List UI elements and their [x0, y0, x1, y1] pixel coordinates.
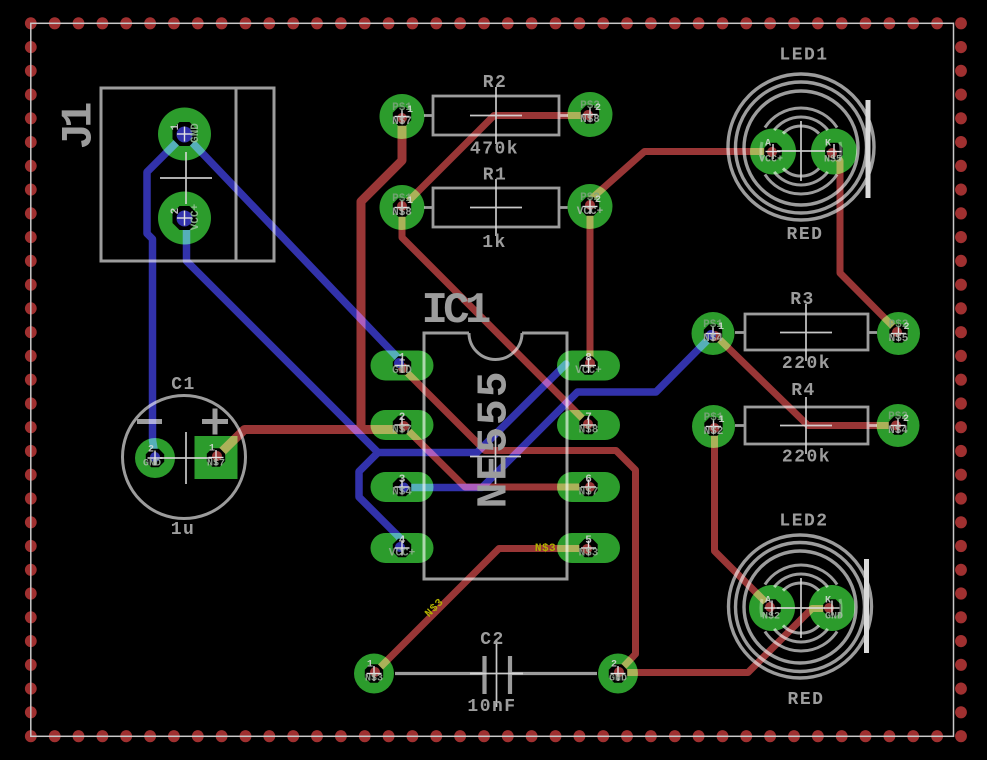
LED1 flat edge chord	[866, 100, 871, 198]
resistor R3 body outline	[735, 314, 877, 350]
LED1 arc streaks over pads	[761, 142, 841, 160]
svg-text:C1: C1	[171, 375, 196, 395]
LED1 package circles	[728, 74, 874, 220]
label 220k R3	[782, 354, 831, 374]
svg-text:A: A	[765, 596, 771, 607]
op IC1 DIP-8 package outline with pin-1 notch	[424, 333, 567, 579]
svg-text:R1: R1	[483, 166, 508, 186]
pad IC1 pad 4 VCC+	[371, 533, 434, 563]
pad C2 pad 1 net N$3	[354, 654, 394, 694]
svg-text:N$2: N$2	[704, 426, 724, 438]
pad IC1 pad 3 net N$4	[371, 472, 434, 502]
board dotted border: left column of drill dots	[25, 41, 37, 718]
pad R3 pad P$2 net N$5	[877, 312, 920, 355]
label 220k R4	[782, 448, 831, 468]
copper trace ends visible in drill holes	[150, 110, 902, 677]
svg-text:N$3: N$3	[535, 543, 556, 555]
svg-text:N$7: N$7	[579, 487, 599, 499]
svg-text:N$3: N$3	[365, 673, 383, 685]
label 10nF	[467, 697, 516, 717]
svg-text:1: 1	[407, 196, 413, 207]
capacitor C1 polarity plus sign	[202, 409, 228, 435]
wire top copper net N$8: R1 P$1 to IC1 pin 7	[402, 208, 589, 425]
label LED1	[779, 46, 828, 66]
svg-text:R2: R2	[483, 73, 508, 93]
label R3	[790, 290, 815, 310]
wire top copper net VCC+: R1 P$2 to IC1 pin 8	[587, 207, 594, 361]
svg-text:R4: R4	[791, 381, 816, 401]
label 1k	[482, 233, 507, 253]
label RED LED1	[787, 225, 824, 245]
board dotted border: right column of drill dots	[955, 41, 967, 718]
svg-text:K: K	[825, 596, 831, 607]
svg-text:GND: GND	[190, 123, 202, 143]
wire bottom copper net VCC+: J1 pin 2 down-diagonal	[185, 219, 379, 453]
wire top copper net GND: IC1 pin 1 to C2 pad 2	[401, 367, 636, 673]
label C1	[171, 375, 196, 395]
wire top copper net N$2: R4 P$1 to LED2 A	[715, 428, 772, 608]
pad IC1 pad 7 net N$8	[557, 410, 620, 440]
label NE555	[470, 369, 519, 508]
pad R4 pad P$1 net N$2	[692, 405, 735, 448]
svg-text:1: 1	[718, 322, 724, 333]
connector J1 outline	[101, 88, 274, 261]
resistor R1 body outline	[424, 188, 568, 227]
wire top copper net GND: C2 pad 2 to LED2 K	[618, 609, 830, 673]
pad J1 pin 1 GND	[158, 108, 211, 161]
svg-text:GND: GND	[825, 612, 843, 623]
capacitor C1 polarity minus sign	[137, 419, 162, 424]
svg-text:6: 6	[585, 474, 592, 486]
svg-text:GND: GND	[392, 365, 412, 377]
wire top copper net N$7: IC1 pin 2 to IC1 pin 6	[403, 426, 589, 488]
svg-text:3: 3	[399, 474, 406, 486]
label R1	[483, 166, 508, 186]
wire top copper net VCC+: R1 P$2 to LED1 A	[590, 152, 771, 207]
svg-text:1: 1	[407, 105, 413, 116]
pad C1 pad 2 GND	[135, 438, 175, 478]
svg-text:2: 2	[170, 208, 182, 215]
board dotted border: top row of drill dots	[25, 17, 967, 29]
pad IC1 pad 6 net N$7	[557, 472, 620, 502]
svg-text:GND: GND	[143, 459, 161, 470]
svg-text:GND: GND	[609, 674, 627, 685]
pad J1 pin 2 VCC+	[158, 192, 211, 245]
svg-text:1: 1	[718, 415, 724, 426]
pad R2 pad P$1 net N$7	[380, 94, 425, 139]
label 1u	[171, 520, 196, 540]
svg-text:LED2: LED2	[779, 512, 828, 532]
svg-text:1k: 1k	[482, 233, 507, 253]
pad C2 pad 2 GND	[598, 654, 638, 694]
svg-text:LED1: LED1	[779, 46, 828, 66]
label LED2	[779, 512, 828, 532]
svg-text:A: A	[765, 139, 771, 150]
svg-text:N$7: N$7	[207, 458, 225, 470]
svg-text:N$4: N$4	[392, 487, 412, 499]
label 470k	[470, 140, 519, 160]
svg-text:2: 2	[595, 103, 601, 114]
wire top copper net N$5: LED1 K to R3 P$2	[831, 152, 899, 333]
svg-text:8: 8	[585, 353, 592, 365]
svg-text:VCC+: VCC+	[389, 548, 416, 560]
wire top copper net N$8: R2 P$2 to R1 P$1	[402, 116, 590, 208]
wire bottom copper net VCC+: junction loop to IC1 pin 4	[359, 453, 400, 549]
label RED LED2	[788, 690, 825, 710]
pad IC1 pad 2 net N$7	[371, 410, 434, 440]
svg-text:VCC+: VCC+	[759, 155, 783, 166]
label J1	[55, 103, 105, 149]
pad LED2 anode pad A net N$2	[749, 585, 795, 631]
svg-text:R3: R3	[790, 290, 815, 310]
LED1 inner arcs	[765, 108, 837, 194]
svg-text:2: 2	[148, 445, 154, 456]
label N$3 on diagonal	[423, 597, 447, 621]
svg-text:RED: RED	[787, 225, 824, 245]
board dotted border: bottom row of drill dots	[25, 730, 967, 742]
pad center crosshairs	[148, 107, 907, 681]
svg-text:N$5: N$5	[824, 154, 842, 166]
svg-text:220k: 220k	[782, 448, 831, 468]
svg-text:5: 5	[585, 535, 592, 547]
svg-text:NE555: NE555	[470, 369, 519, 508]
svg-text:N$8: N$8	[580, 114, 600, 126]
svg-text:2: 2	[399, 412, 406, 424]
svg-text:2: 2	[903, 414, 909, 425]
svg-text:RED: RED	[788, 690, 825, 710]
svg-text:1: 1	[209, 444, 215, 455]
svg-text:N$2: N$2	[762, 611, 780, 623]
LED2 package circles	[729, 535, 872, 678]
svg-text:N$5: N$5	[889, 333, 909, 345]
svg-text:C2: C2	[480, 630, 505, 650]
capacitor C1 body circle	[123, 396, 246, 519]
pad LED1 cathode pad K net N$5	[811, 129, 857, 175]
svg-text:10nF: 10nF	[467, 697, 516, 717]
wire top copper net N$7: C1 pad 1 to IC1 pin 2	[216, 430, 403, 458]
pad R1 pad P$1 net N$8	[380, 185, 425, 230]
svg-text:2: 2	[611, 660, 617, 671]
wire bottom copper net N$4: IC1 pin 3 to R3 P$1	[403, 335, 713, 488]
wire top copper net N$7: R2 P$1 down to junction	[361, 117, 402, 430]
pad IC1 pad 8 VCC+	[557, 351, 620, 381]
svg-text:IC1: IC1	[421, 286, 489, 336]
svg-text:VCC+: VCC+	[190, 203, 202, 230]
svg-text:N$8: N$8	[579, 425, 599, 437]
label R4	[791, 381, 816, 401]
wire top copper net N$3: IC1 pin 5 to C2 pad 1	[374, 549, 589, 674]
pad IC1 pad 1 GND	[371, 351, 434, 381]
LED2 arc streaks over pads	[761, 599, 841, 617]
svg-text:2: 2	[903, 322, 909, 333]
wire bottom copper net GND: J1 pin 1 to C1 pad 2	[147, 135, 185, 459]
resistor R2 body outline	[424, 96, 568, 135]
svg-text:220k: 220k	[782, 354, 831, 374]
pad name/net texts	[143, 100, 910, 685]
wire bottom copper net VCC+: junction to IC1 pin 8	[378, 364, 566, 453]
pad LED1 anode pad A net VCC+	[750, 129, 796, 175]
svg-text:VCC+: VCC+	[575, 365, 602, 377]
component origin crosshairs	[160, 87, 832, 707]
wire top copper net N$4: R3 P$1 to R4 P$2	[714, 334, 898, 426]
svg-text:VCC+: VCC+	[577, 206, 604, 218]
pad R1 pad P$2 net VCC+	[568, 184, 613, 229]
label IC1	[421, 286, 489, 336]
svg-text:1u: 1u	[171, 520, 196, 540]
svg-text:N$7: N$7	[392, 116, 412, 128]
LED2 inner arcs	[765, 565, 837, 651]
svg-text:N$8: N$8	[392, 207, 412, 219]
pad LED2 cathode pad K net GND	[809, 585, 855, 631]
svg-text:7: 7	[585, 412, 592, 424]
svg-text:4: 4	[399, 535, 406, 547]
label N$3 near pin 5	[535, 543, 556, 555]
wire bottom copper net GND: J1 pin 1 to IC1 pin 1	[185, 135, 401, 361]
svg-text:N$4: N$4	[888, 425, 908, 437]
LED2 flat edge chord	[864, 559, 869, 653]
label R2	[483, 73, 508, 93]
svg-text:2: 2	[595, 195, 601, 206]
svg-text:1: 1	[170, 123, 182, 130]
pad C1 pad 1 net N$7 (square)	[195, 436, 238, 479]
svg-text:470k: 470k	[470, 140, 519, 160]
capacitor C2 symbol leads and plates	[395, 672, 597, 675]
label C2	[480, 630, 505, 650]
drill holes (black octagons)	[146, 105, 908, 682]
svg-text:1: 1	[367, 660, 373, 671]
svg-text:N$3: N$3	[579, 548, 599, 560]
svg-text:1: 1	[399, 353, 406, 365]
pad IC1 pad 5 net N$3	[557, 533, 620, 563]
resistor R4 body outline	[735, 407, 877, 444]
svg-text:N$4: N$4	[703, 333, 723, 345]
pad R4 pad P$2 net N$4	[877, 404, 920, 447]
svg-text:K: K	[825, 139, 831, 150]
svg-text:J1: J1	[55, 103, 105, 149]
pad R2 pad P$2 net N$8	[568, 92, 613, 137]
pad R3 pad P$1 net N$4	[692, 312, 735, 355]
svg-text:N$7: N$7	[392, 425, 412, 437]
